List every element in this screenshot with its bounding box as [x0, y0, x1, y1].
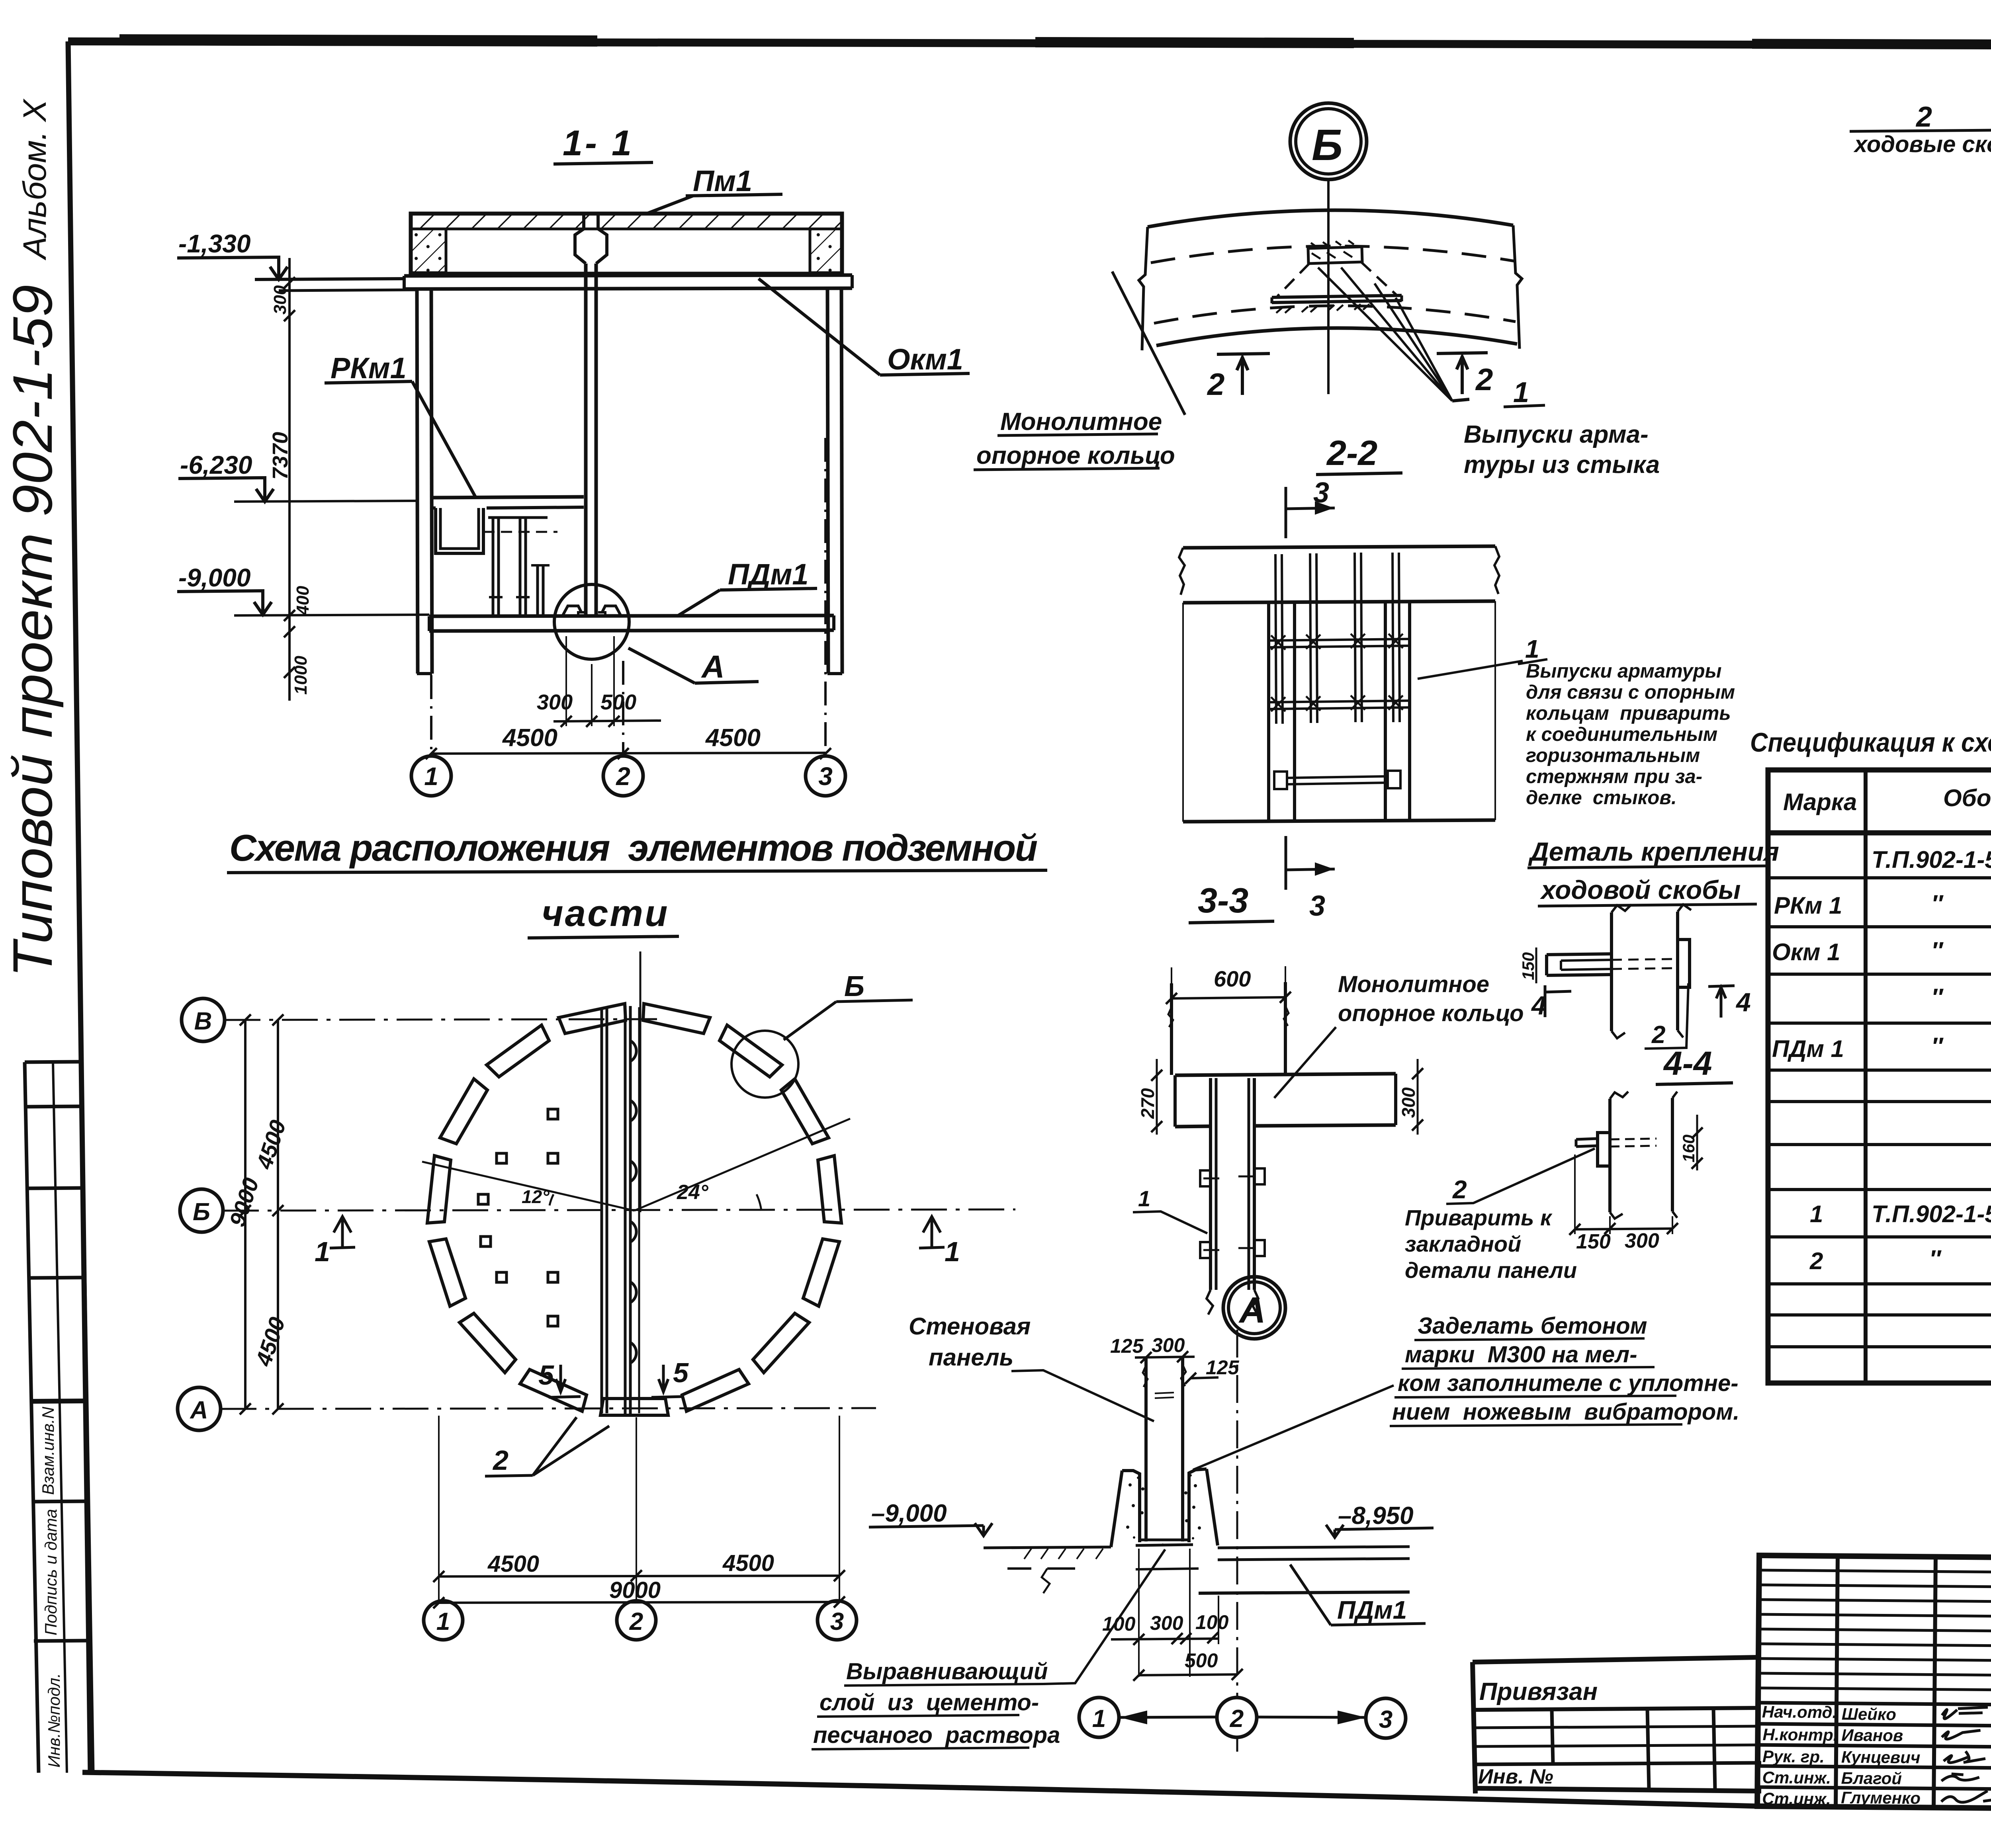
svg-text:1: 1: [436, 1608, 450, 1635]
svg-text:2: 2: [629, 1608, 643, 1635]
svg-text:1: 1: [1138, 1186, 1150, 1211]
svg-text:опорное кольцо: опорное кольцо: [1338, 1000, 1524, 1026]
svg-text:4500: 4500: [705, 724, 761, 752]
svg-text:–8,950: –8,950: [1338, 1502, 1414, 1530]
svg-text:Деталь крепления: Деталь крепления: [1528, 837, 1779, 866]
svg-text:Монолитное: Монолитное: [1338, 971, 1489, 997]
svg-text:Спецификация к схеме расположе: Спецификация к схеме расположения элемен…: [1750, 727, 1991, 758]
svg-text:Глуменко: Глуменко: [1841, 1788, 1921, 1808]
svg-text:4500: 4500: [502, 724, 557, 752]
svg-text:-1,330: -1,330: [178, 229, 250, 258]
svg-text:Подпись и дата: Подпись и дата: [41, 1509, 60, 1635]
svg-text:Нач.отд.: Нач.отд.: [1762, 1702, 1837, 1721]
svg-text:1: 1: [1525, 635, 1539, 663]
svg-text:-6,230: -6,230: [180, 451, 252, 479]
svg-text:В: В: [194, 1008, 212, 1035]
svg-text:Б: Б: [1312, 121, 1343, 170]
svg-text:Благой: Благой: [1841, 1769, 1902, 1788]
svg-text:Инв. №: Инв. №: [1478, 1765, 1553, 1788]
svg-text:к соединительным: к соединительным: [1526, 724, 1717, 745]
svg-text:2: 2: [1207, 367, 1224, 402]
svg-text:Ст.инж.: Ст.инж.: [1762, 1789, 1831, 1808]
svg-text:7370: 7370: [268, 432, 292, 480]
svg-text:панель: панель: [929, 1344, 1013, 1371]
svg-text:1: 1: [1092, 1705, 1106, 1733]
svg-text:Рук. гр.: Рук. гр.: [1762, 1747, 1825, 1766]
svg-text:опорное кольцо: опорное кольцо: [976, 442, 1175, 469]
svg-text:стержням при за-: стержням при за-: [1526, 766, 1702, 787]
svg-text:3-3: 3-3: [1198, 881, 1248, 920]
svg-text:нием ножевым вибратором.: нием ножевым вибратором.: [1392, 1399, 1739, 1425]
svg-text:Б: Б: [844, 971, 864, 1002]
svg-text:ПДм1: ПДм1: [728, 558, 809, 591]
svg-text:160: 160: [1679, 1135, 1698, 1162]
svg-text:1- 1: 1- 1: [563, 123, 634, 163]
svg-text:Обозначение: Обозначение: [1943, 785, 1991, 811]
svg-text:150: 150: [1519, 952, 1537, 980]
svg-text:детали панели: детали панели: [1405, 1258, 1577, 1283]
svg-text:Выравнивающий: Выравнивающий: [846, 1659, 1048, 1684]
svg-text:песчаного раствора: песчаного раствора: [813, 1722, 1060, 1748]
svg-text:″: ″: [1931, 984, 1944, 1010]
svg-text:Инв.№подл.: Инв.№подл.: [45, 1673, 63, 1768]
svg-text:–9,000: –9,000: [871, 1500, 947, 1527]
svg-text:кольцам приварить: кольцам приварить: [1526, 703, 1731, 724]
svg-text:3: 3: [1379, 1706, 1393, 1733]
svg-text:3: 3: [1313, 477, 1329, 509]
svg-text:ком заполнителе с уплотне-: ком заполнителе с уплотне-: [1398, 1370, 1739, 1396]
svg-text:24°: 24°: [677, 1181, 709, 1204]
svg-text:600: 600: [1214, 966, 1251, 991]
svg-text:2-2: 2-2: [1326, 433, 1377, 473]
svg-text:Монолитное: Монолитное: [1000, 408, 1162, 436]
svg-text:слой из цементо-: слой из цементо-: [819, 1690, 1039, 1715]
svg-text:Т.П.902-1-59-КЖ 12÷14: Т.П.902-1-59-КЖ 12÷14: [1872, 846, 1991, 873]
svg-text:1: 1: [945, 1236, 960, 1267]
svg-text:1: 1: [1810, 1201, 1823, 1227]
svg-text:2: 2: [1230, 1705, 1244, 1733]
svg-text:4: 4: [1735, 987, 1751, 1017]
svg-text:Н.контр.: Н.контр.: [1762, 1725, 1838, 1744]
svg-text:″: ″: [1929, 1245, 1942, 1272]
svg-text:Приварить к: Приварить к: [1405, 1205, 1553, 1230]
svg-text:Шейко: Шейко: [1842, 1705, 1896, 1724]
svg-text:500: 500: [600, 690, 636, 714]
svg-text:5: 5: [538, 1360, 554, 1391]
svg-text:1: 1: [1513, 377, 1529, 408]
svg-text:4-4: 4-4: [1663, 1045, 1712, 1082]
svg-text:Пм1: Пм1: [693, 164, 752, 197]
svg-text:Окм 1: Окм 1: [1772, 939, 1840, 965]
svg-text:Схема расположения элементов: Схема расположения элементов подземной: [229, 827, 1038, 869]
svg-text:для связи с опорным: для связи с опорным: [1526, 682, 1735, 703]
svg-text:″: ″: [1931, 890, 1944, 917]
svg-text:300: 300: [1150, 1612, 1183, 1634]
svg-text:Т.П.902-1-59-КЖ 3: Т.П.902-1-59-КЖ 3: [1872, 1201, 1991, 1227]
svg-text:300: 300: [537, 690, 573, 714]
svg-text:Ст.инж.: Ст.инж.: [1762, 1768, 1831, 1787]
svg-text:2: 2: [1475, 362, 1493, 397]
svg-text:Взам.инв.N: Взам.инв.N: [39, 1407, 57, 1495]
svg-text:А: А: [701, 649, 725, 684]
svg-text:150: 150: [1576, 1230, 1611, 1253]
svg-text:1: 1: [424, 762, 438, 791]
svg-text:ПДм 1: ПДм 1: [1772, 1035, 1844, 1062]
svg-text:5: 5: [673, 1357, 689, 1388]
svg-text:2: 2: [616, 762, 630, 791]
svg-text:300: 300: [1625, 1229, 1659, 1252]
svg-text:Заделать бетоном: Заделать бетоном: [1418, 1313, 1647, 1339]
svg-text:″: ″: [1931, 937, 1944, 964]
svg-text:125: 125: [1110, 1335, 1144, 1357]
svg-text:2: 2: [1915, 101, 1932, 133]
svg-text:марки М300 на мел-: марки М300 на мел-: [1405, 1342, 1637, 1367]
svg-text:Выпуски арматуры: Выпуски арматуры: [1526, 660, 1721, 682]
svg-text:ходовой скобы: ходовой скобы: [1540, 875, 1741, 904]
svg-text:270: 270: [1137, 1088, 1158, 1119]
svg-text:туры из стыка: туры из стыка: [1464, 451, 1660, 479]
svg-text:4500: 4500: [722, 1550, 774, 1576]
svg-text:2: 2: [1809, 1248, 1823, 1274]
svg-text:ПДм1: ПДм1: [1337, 1596, 1407, 1624]
svg-text:400: 400: [293, 586, 313, 615]
svg-text:закладной: закладной: [1405, 1231, 1521, 1256]
svg-text:Окм1: Окм1: [887, 343, 963, 376]
svg-text:-9,000: -9,000: [178, 563, 250, 592]
svg-text:РКм 1: РКм 1: [1774, 892, 1842, 919]
svg-text:Марка: Марка: [1783, 789, 1857, 815]
svg-text:3: 3: [818, 762, 833, 791]
svg-text:″: ″: [1931, 1033, 1944, 1059]
svg-text:2: 2: [492, 1445, 509, 1476]
svg-text:3: 3: [830, 1608, 844, 1635]
svg-text:Типовой проект 902-1-59: Типовой проект 902-1-59: [1, 285, 64, 977]
svg-text:Привязан: Привязан: [1479, 1678, 1598, 1705]
svg-text:ходовые скобы.: ходовые скобы.: [1853, 131, 1991, 157]
svg-text:12°: 12°: [522, 1186, 550, 1207]
svg-text:2: 2: [1452, 1175, 1467, 1204]
svg-text:300: 300: [1398, 1087, 1419, 1118]
svg-text:А: А: [190, 1397, 208, 1424]
svg-text:горизонтальным: горизонтальным: [1526, 745, 1700, 766]
svg-text:Иванов: Иванов: [1841, 1726, 1903, 1745]
svg-text:А: А: [1238, 1290, 1265, 1330]
svg-text:РКм1: РКм1: [331, 352, 407, 385]
svg-text:Выпуски арма-: Выпуски арма-: [1464, 421, 1649, 448]
svg-text:Стеновая: Стеновая: [909, 1313, 1031, 1340]
svg-text:100: 100: [1195, 1611, 1229, 1633]
svg-text:4500: 4500: [487, 1551, 539, 1577]
svg-text:части: части: [542, 892, 669, 934]
svg-text:300: 300: [1152, 1334, 1185, 1356]
svg-text:300: 300: [270, 285, 290, 315]
svg-text:1: 1: [315, 1236, 330, 1267]
svg-text:Кунцевич: Кунцевич: [1841, 1748, 1921, 1767]
svg-text:Альбом. Х: Альбом. Х: [17, 98, 53, 261]
svg-text:125: 125: [1206, 1356, 1240, 1379]
svg-text:4: 4: [1531, 990, 1546, 1020]
svg-text:3: 3: [1309, 890, 1325, 922]
svg-text:1000: 1000: [291, 656, 311, 695]
svg-text:Б: Б: [193, 1198, 210, 1226]
svg-text:делке стыков.: делке стыков.: [1526, 787, 1677, 809]
